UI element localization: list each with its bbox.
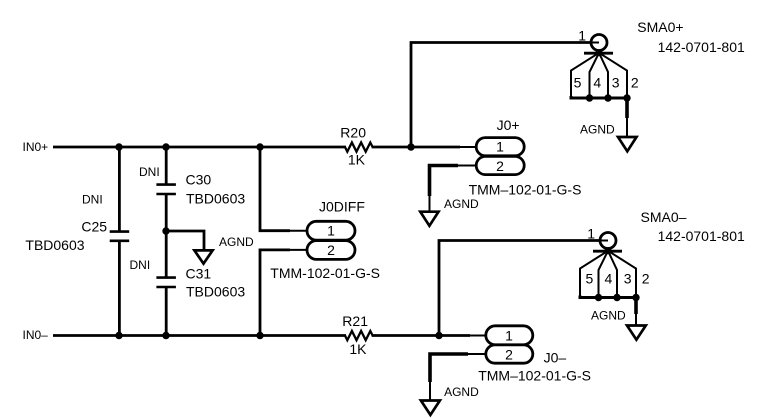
SMA0+ leg pin5 <box>571 53 599 98</box>
resistor R20 <box>345 143 373 152</box>
svg-text:142-0701-801: 142-0701-801 <box>658 228 745 244</box>
svg-text:DNI: DNI <box>139 165 160 179</box>
SMA0+ wire to ground thin <box>626 117 628 138</box>
svg-text:IN0–: IN0– <box>23 328 49 342</box>
svg-text:3: 3 <box>612 75 620 91</box>
SMA0+ leg pin2 <box>599 53 627 98</box>
svg-text:SMA0–: SMA0– <box>641 209 687 225</box>
svg-text:1K: 1K <box>349 341 367 357</box>
junction node bottom x119 <box>115 332 122 339</box>
svg-text:1: 1 <box>578 27 586 43</box>
SMA0- pin1 stub into circle <box>599 240 608 242</box>
wire R20 node up to SMA0+ <box>411 43 599 149</box>
SMA0- ground bus <box>580 296 636 298</box>
svg-text:2: 2 <box>642 270 650 286</box>
svg-text:C25: C25 <box>81 219 107 235</box>
svg-text:C31: C31 <box>186 265 212 281</box>
wire vertical C31 bottom <box>165 287 168 336</box>
svg-text:TBD0603: TBD0603 <box>186 190 245 206</box>
connector SMA0- symbol <box>580 233 646 340</box>
ground AGND symbol at C31 <box>194 250 212 263</box>
svg-text:1: 1 <box>587 225 595 241</box>
svg-text:1K: 1K <box>348 151 366 167</box>
ground AGND symbol at SMA0- <box>627 326 646 340</box>
svg-text:R21: R21 <box>342 313 368 329</box>
wire AGND tap <box>165 231 204 251</box>
wire IN0- horizontal bottom net <box>53 334 346 337</box>
junction node bottom x166 <box>162 332 169 339</box>
wire J0+ ground stub <box>429 195 431 212</box>
wire vertical x260 to J0DIFF pin1 <box>260 147 290 231</box>
junction node bottom x260 <box>256 332 263 339</box>
SMA0- bus junction pin2 <box>632 294 639 301</box>
resistor R21 <box>345 331 373 340</box>
wire J0- ground stub <box>429 381 431 401</box>
svg-text:TMM–102-01-G-S: TMM–102-01-G-S <box>469 182 582 198</box>
SMA0+ bus junction pin3 <box>604 94 611 101</box>
pin stub J0DIFF pin1 <box>288 230 308 232</box>
wire R21 node up to SMA0- <box>439 241 608 337</box>
svg-text:C30: C30 <box>186 172 212 188</box>
SMA0- bus junction pin4 <box>595 294 602 301</box>
capacitor C25 <box>110 232 130 241</box>
svg-text:IN0+: IN0+ <box>23 140 49 154</box>
svg-text:TBD0603: TBD0603 <box>186 284 245 300</box>
ground AGND symbol at SMA0+ <box>618 137 637 151</box>
junction node top x166 <box>162 143 169 150</box>
svg-text:AGND: AGND <box>444 385 479 399</box>
junction node top x260 <box>256 143 263 150</box>
svg-text:1: 1 <box>327 223 335 239</box>
connector J0+ body <box>476 138 524 175</box>
wire IN0+ horizontal top net <box>53 146 346 149</box>
svg-text:AGND: AGND <box>591 309 626 323</box>
SMA0+ bus junction pin2 <box>623 94 630 101</box>
svg-text:J0DIFF: J0DIFF <box>319 199 365 215</box>
svg-text:AGND: AGND <box>444 197 479 211</box>
svg-text:2: 2 <box>327 242 335 258</box>
SMA0- bus junction pin3 <box>613 294 620 301</box>
SMA0+ leg pin3 <box>599 53 608 98</box>
svg-text:DNI: DNI <box>82 192 103 206</box>
connector J0DIFF body <box>307 221 355 259</box>
SMA0- center pin circle <box>600 233 616 249</box>
junction node R20 output <box>407 143 414 150</box>
SMA0- wire to ground thin <box>635 313 637 326</box>
junction node R21 output <box>435 332 442 339</box>
SMA0+ bus junction pin4 <box>586 94 593 101</box>
SMA0- leg pin5 <box>580 251 608 298</box>
SMA0+ pin1 stub into circle <box>590 42 599 44</box>
svg-text:2: 2 <box>631 75 639 91</box>
svg-text:AGND: AGND <box>219 235 254 249</box>
wire vertical C25 branch bottom <box>118 241 121 336</box>
SMA0- leg pin3 <box>608 251 617 298</box>
svg-text:142-0701-801: 142-0701-801 <box>658 39 745 55</box>
svg-text:1: 1 <box>496 139 504 155</box>
wire vertical C25 branch top <box>118 147 121 232</box>
svg-text:1: 1 <box>505 328 513 344</box>
svg-text:SMA0+: SMA0+ <box>637 19 683 35</box>
junction node top x119 <box>115 143 122 150</box>
svg-text:R20: R20 <box>340 125 366 141</box>
SMA0- fan origin <box>605 247 612 254</box>
wire J0+ pin2 to ground <box>430 166 459 197</box>
SMA0- body bar <box>593 250 622 253</box>
wire vertical C30 top <box>165 147 168 185</box>
wire J0- pin2 to ground <box>430 354 468 382</box>
junction node AGND tap <box>162 227 169 234</box>
svg-text:3: 3 <box>624 270 632 286</box>
SMA0+ wire bus to ground thick <box>625 98 629 118</box>
SMA0- leg pin2 <box>608 251 636 298</box>
wire vertical C30 bottom to C31 top <box>165 194 168 278</box>
SMA0- leg pin4 <box>599 251 609 298</box>
svg-text:DNI: DNI <box>130 258 151 272</box>
pin stub J0- pin1 <box>468 335 487 337</box>
connector J0- body <box>486 326 533 363</box>
wire J0DIFF pin2 down to bottom net <box>260 250 290 336</box>
ground AGND symbol at J0+ <box>420 212 438 226</box>
capacitor C30 <box>156 185 176 194</box>
pin stub J0+ pin2 <box>457 165 477 167</box>
svg-text:4: 4 <box>593 75 601 91</box>
connector SMA0+ symbol <box>571 35 637 152</box>
svg-text:4: 4 <box>605 270 613 286</box>
ground AGND symbol at J0- <box>421 401 440 415</box>
pin stub J0DIFF pin2 <box>288 249 308 251</box>
pin stub J0- pin2 <box>467 353 487 355</box>
svg-text:TMM-102-01-G-S: TMM-102-01-G-S <box>270 265 380 281</box>
SMA0+ center pin circle <box>591 35 607 51</box>
capacitor C31 <box>156 278 176 287</box>
SMA0+ ground bus <box>571 96 627 98</box>
SMA0+ body bar <box>584 52 613 55</box>
SMA0+ leg pin4 <box>590 53 600 98</box>
svg-text:5: 5 <box>586 270 594 286</box>
pin stub J0+ pin1 <box>458 146 477 148</box>
svg-text:TBD0603: TBD0603 <box>25 237 84 253</box>
svg-text:AGND: AGND <box>580 123 615 137</box>
svg-text:J0–: J0– <box>544 350 567 366</box>
svg-text:2: 2 <box>496 158 504 174</box>
svg-text:5: 5 <box>574 75 582 91</box>
SMA0+ fan origin <box>596 49 603 56</box>
svg-text:TMM–102-01-G-S: TMM–102-01-G-S <box>478 367 591 383</box>
SMA0- wire bus to ground thick <box>634 298 638 315</box>
svg-text:J0+: J0+ <box>497 117 520 133</box>
svg-text:2: 2 <box>505 346 513 362</box>
